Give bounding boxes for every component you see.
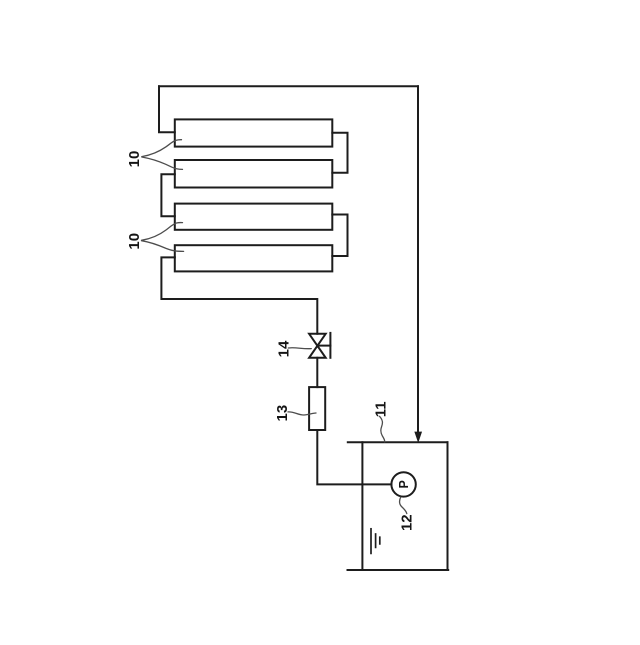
filter 13 body (309, 387, 325, 430)
membrane module rect 1 (10) (175, 119, 332, 146)
pump P12 circle (391, 472, 415, 496)
leader line: label 10 (lower) to module 3 (142, 223, 183, 241)
svg-text:12: 12 (398, 514, 415, 531)
valve V14 handle bar (329, 333, 331, 358)
membrane module rect 4 (10) (175, 245, 332, 271)
leader line: label 13 to filter (288, 412, 316, 415)
wire: left drop from top line into module 1 (159, 86, 175, 132)
wire: left connector module2 to module3 (161, 174, 174, 216)
leader line: label 10 (lower) to module 4 (142, 241, 184, 252)
leader line: label 11 to tank top (380, 416, 385, 442)
svg-text:13: 13 (274, 405, 291, 422)
wire: right connector module3 to module4 (332, 215, 347, 257)
arrowhead of feed line into tank (415, 432, 422, 442)
wire: filter down and across to pump (317, 430, 391, 484)
svg-text:14: 14 (275, 340, 292, 357)
leader line: label 12 to pump (399, 497, 406, 513)
svg-text:P: P (397, 480, 411, 488)
wire: outlet from module4 down and across to valve (161, 257, 317, 333)
valve V14 stem (317, 345, 330, 347)
wire: top feed line (159, 85, 418, 87)
tank 11 top edge (348, 441, 448, 443)
liquid level mark line 1 (370, 529, 372, 554)
leader line: label 10 (upper) to module 2 (142, 157, 183, 169)
tank 11 left wall (361, 442, 363, 570)
liquid level mark line 2 (375, 534, 377, 547)
tank 11 right wall (447, 442, 449, 570)
liquid level mark line 3 (379, 537, 381, 544)
wire: right connector module1 to module2 (332, 133, 347, 173)
leader line: label 14 to valve (288, 347, 311, 350)
svg-text:10: 10 (126, 233, 143, 250)
svg-text:10: 10 (126, 151, 143, 168)
valve V14 body (hourglass) (309, 334, 326, 358)
membrane module rect 2 (10) (175, 160, 332, 188)
wire: valve to filter (316, 358, 318, 387)
wire: right feed line down to tank (417, 86, 419, 431)
svg-text:11: 11 (372, 401, 389, 417)
membrane module rect 3 (10) (175, 204, 332, 230)
tank 11 bottom edge (348, 569, 449, 571)
leader line: label 10 (upper) to module 1 (142, 140, 182, 157)
